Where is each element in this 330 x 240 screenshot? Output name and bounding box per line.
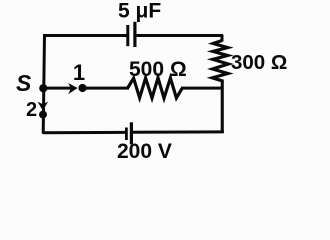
wire bottom: battery to left corner	[43, 131, 125, 134]
wire resistor to right line	[181, 87, 223, 90]
switch arrow to node 1	[45, 83, 78, 94]
node 1 dot	[78, 84, 86, 92]
wire top: left corner to capacitor	[45, 34, 127, 37]
wire left vertical	[42, 34, 46, 134]
svg-text:2: 2	[26, 99, 37, 121]
svg-text:200 V: 200 V	[117, 140, 172, 163]
wire top: capacitor to top-right corner	[136, 34, 223, 37]
svg-text:S: S	[16, 70, 32, 96]
resistor R2 300ohm vertical zigzag	[212, 41, 228, 81]
switch arrow down to node 2	[38, 102, 49, 111]
resistor R1 500ohm zigzag	[128, 78, 183, 98]
svg-text:1: 1	[73, 60, 85, 85]
svg-text:500 Ω: 500 Ω	[129, 58, 187, 81]
svg-text:300 Ω: 300 Ω	[231, 51, 287, 74]
capacitor C1 plates	[128, 22, 135, 47]
wire right vertical lower	[221, 80, 224, 134]
wire right vertical top stub	[221, 35, 224, 42]
battery B1 plates	[126, 122, 131, 144]
svg-text:5 μF: 5 μF	[118, 0, 161, 22]
wire node1 to resistor	[85, 87, 129, 90]
node S junction	[39, 84, 47, 92]
wire bottom: right corner to battery	[133, 130, 224, 133]
node 2 dot	[39, 111, 47, 119]
